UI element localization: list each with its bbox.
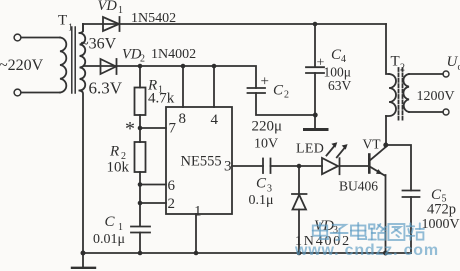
svg-text:T: T <box>391 54 400 70</box>
svg-text:4.7k: 4.7k <box>148 91 175 107</box>
svg-text:4: 4 <box>211 112 219 128</box>
svg-text:0.01μ: 0.01μ <box>93 232 125 247</box>
svg-text:VD: VD <box>122 47 142 63</box>
svg-text:2: 2 <box>400 63 405 74</box>
svg-text:3: 3 <box>224 159 232 175</box>
svg-text:2: 2 <box>168 196 176 212</box>
svg-text:1N5402: 1N5402 <box>131 11 176 26</box>
svg-text:1: 1 <box>194 204 202 220</box>
svg-text:BU406: BU406 <box>339 179 378 194</box>
svg-text:~36V: ~36V <box>80 36 117 53</box>
svg-text:+: + <box>261 74 269 90</box>
svg-text:T: T <box>58 13 67 29</box>
svg-text:R: R <box>109 144 119 160</box>
svg-text:10k: 10k <box>107 160 130 176</box>
svg-text:1000V: 1000V <box>422 217 460 232</box>
svg-text:www. cndzz. com: www. cndzz. com <box>294 242 439 259</box>
svg-text:2: 2 <box>284 90 289 101</box>
svg-text:4: 4 <box>341 54 346 65</box>
svg-text:VD: VD <box>98 0 118 14</box>
svg-text:NE555: NE555 <box>181 154 222 170</box>
svg-text:LED: LED <box>296 142 324 157</box>
svg-text:1: 1 <box>68 23 73 34</box>
svg-text:6.3V: 6.3V <box>89 79 123 98</box>
svg-text:C: C <box>105 214 116 230</box>
svg-text:6: 6 <box>168 178 176 194</box>
svg-text:63V: 63V <box>328 78 352 93</box>
svg-text:1200V: 1200V <box>417 89 455 104</box>
svg-text:2: 2 <box>140 54 145 65</box>
svg-text:1N4002: 1N4002 <box>151 47 196 62</box>
svg-text:10V: 10V <box>254 137 278 152</box>
svg-text:472p: 472p <box>427 202 456 218</box>
svg-text:C: C <box>256 176 267 192</box>
svg-text:0.1μ: 0.1μ <box>249 193 274 208</box>
svg-text:VT: VT <box>363 137 382 152</box>
svg-text:1: 1 <box>118 5 123 16</box>
svg-text:8: 8 <box>179 111 187 127</box>
svg-text:7: 7 <box>169 121 177 137</box>
svg-text:*: * <box>125 118 135 140</box>
svg-text:C: C <box>273 83 284 99</box>
svg-text:~220V: ~220V <box>0 57 44 74</box>
svg-text:220μ: 220μ <box>252 119 283 135</box>
